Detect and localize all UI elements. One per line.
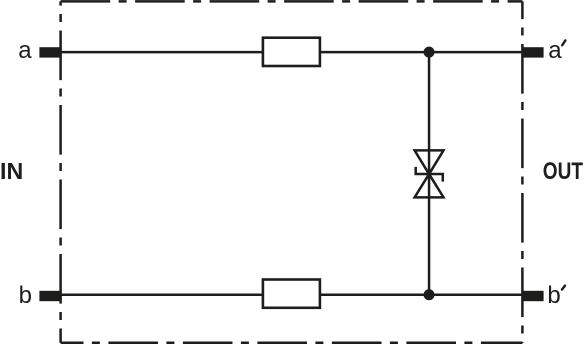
wire b (bottom horizontal) [40, 294, 543, 297]
svg-text:OUT: OUT [543, 158, 583, 185]
resistor R2 (series, line b) [263, 280, 320, 308]
node junction dot (bottom, wire b / shunt) [424, 289, 435, 300]
svg-text:a: a [18, 37, 32, 64]
terminal a' (output, filled block) [522, 47, 543, 57]
svg-text:a: a [548, 37, 562, 64]
node junction dot (top, wire a / shunt) [424, 47, 435, 58]
svg-text:b: b [19, 282, 32, 309]
wire (vertical shunt branch) [428, 52, 431, 295]
terminal a (input, filled block) [39, 47, 60, 57]
enclosure border left edge (dash-dot) [59, 1, 62, 342]
enclosure border right edge (dash-dot) [521, 1, 524, 342]
svg-text:b: b [547, 282, 560, 309]
TVS suppressor diode (bidirectional) [415, 150, 444, 197]
enclosure border bottom edge (dash-dot) [61, 342, 523, 345]
svg-text:IN: IN [0, 158, 23, 184]
wire a (top horizontal) [40, 51, 543, 54]
terminal b (input, filled block) [39, 291, 60, 301]
terminal b' (output, filled block) [522, 291, 543, 301]
enclosure border top edge (dash-dot) [61, 0, 523, 3]
resistor R1 (series, line a) [263, 38, 320, 66]
